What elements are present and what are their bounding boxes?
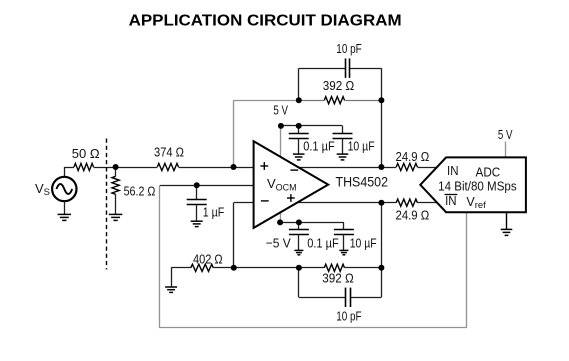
svg-text:24.9 Ω: 24.9 Ω (396, 207, 430, 222)
svg-text:1 µF: 1 µF (203, 204, 225, 219)
svg-text:374 Ω: 374 Ω (154, 145, 184, 160)
svg-text:5 V: 5 V (498, 127, 513, 142)
svg-text:−5 V: −5 V (266, 236, 291, 251)
svg-text:24.9 Ω: 24.9 Ω (396, 149, 430, 164)
svg-text:14 Bit/80 MSps: 14 Bit/80 MSps (438, 178, 517, 193)
svg-text:392 Ω: 392 Ω (323, 78, 355, 93)
svg-text:56.2 Ω: 56.2 Ω (124, 183, 156, 198)
svg-text:IN: IN (447, 163, 459, 178)
svg-text:5 V: 5 V (273, 103, 288, 118)
svg-text:IN: IN (445, 193, 457, 208)
svg-text:APPLICATION CIRCUIT DIAGRAM: APPLICATION CIRCUIT DIAGRAM (129, 12, 402, 29)
svg-text:392 Ω: 392 Ω (322, 271, 354, 286)
svg-text:10 pF: 10 pF (336, 309, 361, 324)
svg-text:402 Ω: 402 Ω (193, 251, 223, 266)
svg-text:0.1 µF: 0.1 µF (307, 236, 339, 251)
svg-text:THS4502: THS4502 (336, 174, 389, 190)
svg-text:50 Ω: 50 Ω (72, 146, 100, 161)
svg-text:10 µF: 10 µF (350, 236, 377, 251)
svg-text:0.1 µF: 0.1 µF (303, 138, 335, 153)
svg-text:10 pF: 10 pF (336, 41, 361, 56)
svg-text:10 µF: 10 µF (348, 138, 375, 153)
